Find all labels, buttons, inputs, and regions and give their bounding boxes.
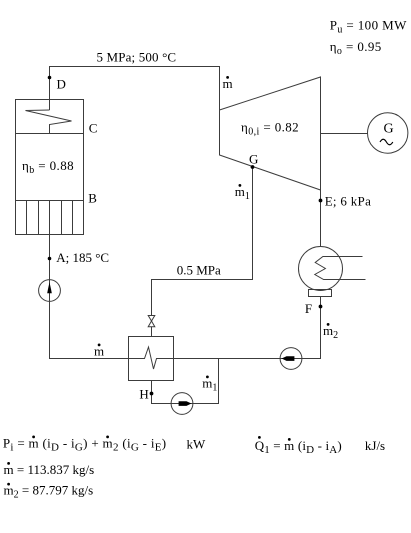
- svg-text:E; 6 kPa: E; 6 kPa: [325, 194, 371, 209]
- svg-text:F: F: [305, 301, 312, 316]
- svg-text:0.5 MPa: 0.5 MPa: [177, 263, 221, 278]
- svg-text:m = 113.837 kg/s: m = 113.837 kg/s: [4, 462, 95, 477]
- svg-text:C: C: [89, 121, 98, 136]
- svg-text:G: G: [249, 152, 258, 167]
- svg-text:B: B: [88, 191, 97, 206]
- svg-text:5 MPa; 500 °C: 5 MPa; 500 °C: [97, 50, 177, 65]
- svg-text:kJ/s: kJ/s: [365, 438, 385, 453]
- svg-text:kW: kW: [187, 437, 207, 452]
- svg-text:G: G: [384, 122, 394, 137]
- svg-text:H: H: [139, 387, 148, 402]
- svg-text:A; 185 °C: A; 185 °C: [56, 250, 109, 265]
- svg-text:D: D: [57, 77, 66, 92]
